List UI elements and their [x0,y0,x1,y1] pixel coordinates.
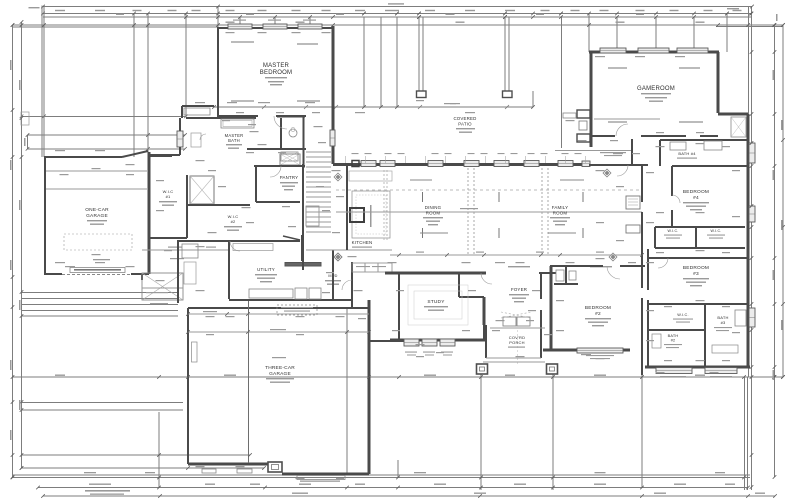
gameroom right wall [717,52,720,113]
svg-text:STUDY: STUDY [427,299,445,305]
one-car garage bottom wall left [44,273,62,275]
master bedroom bottom wall segments [217,115,258,117]
master bath left wall upper [179,118,181,131]
utility cabinet row [233,244,273,251]
stair hall right wall [302,164,304,270]
back wall windows [361,161,376,167]
gameroom bottom wall segments [591,135,615,137]
master bedroom top wall [217,27,334,29]
extension line far right [782,25,784,377]
front door swing dashes [501,312,531,318]
one-car garage interior line 1 [46,170,147,172]
gameroom window 2 [638,48,669,53]
mb window texts [233,20,246,21]
bedroom2 window [577,348,623,353]
left dim texts rotated [10,60,12,70]
svg-text:BEDROOM: BEDROOM [260,70,292,76]
powder nook walls [565,266,567,284]
closet x box [281,152,298,161]
gameroom right wing top wall [718,113,748,116]
dining dim line [336,211,642,213]
master bath top wall right segment [277,115,305,117]
porch center dashed [517,330,519,364]
garage door right jamb [141,274,143,280]
mb interior dim dashes [231,41,254,43]
wic bed3 bottom wall [648,329,705,331]
garage door label [300,481,340,482]
interior dim ticks y314 [186,312,190,316]
study window labels [405,352,417,353]
svg-text:FOYER: FOYER [511,287,527,292]
wic2 top wall [188,204,250,206]
patio column base 2 [503,91,513,98]
patio column base 1 [417,91,427,98]
svg-text:ONE-CAR: ONE-CAR [85,207,109,213]
right exterior wall [747,114,750,368]
scale note bottom left [85,490,130,492]
refrigerator [306,206,319,226]
left dim line y116 [22,115,187,117]
master bedroom window 2 [263,24,287,29]
gameroom top wall [589,51,719,54]
kitchen left wall [346,166,348,250]
diamond symbol mud [334,253,342,261]
bath4 left wall [659,140,661,166]
extension line x397 [396,17,398,107]
window centerline dashes [422,192,424,202]
gameroom left niche box [579,121,587,130]
pantry top wall [254,165,305,167]
svg-text:PATIO: PATIO [458,122,472,127]
bottom dim texts [89,484,111,485]
mud bench appliances [249,289,293,298]
master bath left window [177,131,183,147]
three-car garage bottom right [282,473,369,476]
wing front wall [645,366,750,369]
extension line garage-left double [41,6,43,158]
wing front window 1 [656,368,692,374]
interior dim ticks y255 [397,253,401,257]
driveway upper line 1 [22,402,184,404]
patio roof line col1 [418,17,420,91]
hall line [306,249,392,251]
bottom dim line outer [43,495,775,497]
note box left edge [21,112,29,125]
gameroom left pilaster 2 [577,134,590,142]
bedroom3 bottom wall [648,303,748,305]
door arc utility [230,241,240,251]
water closet cabinets [184,108,210,115]
front door double [503,317,516,326]
extension line right dim [751,6,753,490]
garage storage box [192,342,198,362]
bedroom4 left wall [671,166,673,196]
apron line 1 [22,292,179,294]
extension line left outer [12,25,14,477]
right wall window 3 [749,308,755,327]
extension line x381 [380,17,382,107]
bath3 fixtures [735,310,746,326]
extension line x186 [185,14,187,118]
master bath shower 2 [280,154,300,165]
wing front window 2 [705,368,737,374]
kitchen dashed lines [383,170,385,240]
svg-text:GARAGE: GARAGE [269,371,291,377]
kitchen back counter [349,171,392,181]
kitchen island [352,191,390,238]
door arc pantry [270,166,281,177]
wic1 right wall [186,175,188,238]
patio dim line y119 [594,118,660,120]
bottom dim line a [13,474,751,476]
dimension ticks right edge [773,23,777,27]
wic top wall bed4 [655,226,745,228]
wic1 top wall [149,155,172,157]
hall linen box 1 [626,196,640,209]
bath4 top wall [660,139,748,141]
svg-text:PORCH: PORCH [509,340,524,345]
svg-text:ROOM: ROOM [426,211,441,216]
extension garage door x347 [346,308,348,474]
wic bottom wall bed4 [655,247,745,249]
one-car garage door label box [70,268,125,273]
master closet divider 1 [280,118,282,150]
mb window right wall [330,130,335,146]
right corner text [776,14,778,21]
study windows [404,339,419,346]
svg-text:UTILITY: UTILITY [257,267,275,272]
kitchen range dark square [350,208,364,222]
right wall window 1 [749,143,755,163]
master bath tub [221,119,254,128]
svg-text:#2: #2 [231,219,236,224]
one-car garage dashed slab [64,234,132,250]
door arc bedroom4 [672,195,680,203]
slab leveler line [555,150,632,152]
extension line left inner [21,22,23,468]
kitchen island dotted [356,195,386,234]
dimension ticks top rows [41,5,45,9]
patio slab edge [214,106,533,108]
door arc bedroom3 [658,258,668,268]
back wall dim smudges [352,153,359,154]
dimension line upper full-width [13,24,784,26]
diamond hall right [603,169,611,177]
hall wall segment [283,236,300,240]
three-car garage right wall [368,300,371,474]
svg-text:#4: #4 [693,195,699,201]
dashed beam pair 1 [467,168,469,255]
svg-text:#2: #2 [671,339,676,343]
one-car garage left wall [44,157,46,274]
top dim texts [388,3,404,4]
garage door sill 1 [202,469,216,473]
svg-text:W.I.C.: W.I.C. [711,229,722,233]
master bedroom window 3 [298,24,322,29]
porch column right [547,364,558,374]
door arc bedroom2 [607,266,620,279]
garage dim line y314 [188,313,369,315]
svg-text:COVERED: COVERED [453,116,476,121]
door arc master [274,116,287,129]
extension line right outer [774,25,776,477]
pantry bottom wall [256,201,300,203]
study right wall [483,297,486,325]
one-car garage bottom wall right [131,273,149,275]
porch right wall [540,310,542,358]
slab leveler text [600,152,626,153]
one-car garage OH door sill dashed [62,274,131,276]
hall wall x632 [631,139,633,166]
pantry left wall [255,166,257,202]
porch column left [477,364,488,374]
driveway upper line 2 [22,409,184,411]
svg-text:BEDROOM: BEDROOM [683,189,709,195]
patio right vent box [563,113,576,118]
svg-text:W.I.C.: W.I.C. [668,229,679,233]
hall dimension row [390,254,642,256]
stair treads [306,151,331,153]
extension bottom x398 [397,460,399,477]
mb window dim ticks [239,17,241,24]
svg-text:BEDROOM: BEDROOM [585,305,611,311]
left dim ticks [20,115,24,119]
wic1 left wall / garage right wall [148,152,151,274]
master bedroom right wall / patio left wall [332,26,335,164]
bedroom2 bottom wall [543,349,630,352]
svg-text:KITCHEN: KITCHEN [352,240,373,245]
hall dim line y261 [170,258,184,259]
one-car garage interior line 2 [46,188,147,190]
interior dim ticks y332 garage [186,330,190,334]
main back wall [333,163,589,166]
mud right wall [351,262,353,308]
wic divider bed4 [695,227,697,248]
gameroom window 1 [600,48,626,53]
garage door sill 3 [297,476,345,480]
master closet divider 2 [302,115,304,168]
kitchen-mud wall [332,250,334,300]
svg-text:BATH #4: BATH #4 [678,151,696,156]
apron line 2 [22,298,179,300]
mid dim string texts [55,375,65,376]
master bath top wall [186,117,256,119]
study coffered ceiling [408,285,468,325]
bedroom2 top wall [550,265,603,267]
garage door sill 2 [237,469,252,473]
utility right wall upper [301,235,303,261]
extension line x561 [561,17,563,148]
door arc hall center [617,165,628,176]
porch step lines [490,327,545,329]
master bath shower [190,176,214,204]
foyer right wall [540,273,542,299]
gameroom left pilaster 1 [577,110,590,118]
gameroom left wall [590,52,593,147]
extension line x134 [133,14,135,158]
left dim line y135 [28,134,186,136]
svg-text:#1: #1 [166,194,171,199]
three-car garage bottom left [188,463,268,466]
right dim texts rotated [773,70,775,80]
one-car garage corner diagonal [122,151,148,157]
wc toilet [289,129,297,137]
three-car garage left wall [187,308,189,464]
bedroom2 window label [586,355,614,356]
master bath vanity [191,133,201,147]
water closet protrusion [182,105,214,107]
patio roof line col2 [504,17,506,91]
back wall corner block [352,161,359,167]
dimension line top second [43,13,751,15]
extension line MB left [217,7,219,27]
dashed ceiling line [336,189,640,191]
svg-text:DINING: DINING [425,205,442,210]
wic1 bottom wall [149,237,187,239]
bottom dim line b [13,477,751,479]
bedroom3 top wall [648,257,748,259]
wic bed3 right wall [704,304,706,368]
svg-text:BATH: BATH [668,334,679,338]
utility left closet [182,244,198,258]
front wall to garage [369,340,404,342]
door arc garage entry [342,280,352,290]
study front wall [390,339,486,342]
bath2 fixtures [652,334,661,348]
dimension line top outer [43,6,752,8]
garage interior wall line [248,301,250,463]
gameroom window 3 [677,48,708,53]
svg-text:BEDROOM: BEDROOM [683,265,709,271]
bath/bchd smudge [508,266,530,267]
driveway vertical three-car [158,412,160,488]
svg-text:GAMEROOM: GAMEROOM [637,86,675,92]
hall dim line y250 [142,249,229,251]
dimension string mid bottom [13,376,784,378]
utility room left wall [228,240,230,299]
extension bottom x744 double [744,377,746,490]
bottom dim line c [38,487,748,489]
left dim line y149 [28,148,186,150]
gameroom window dim ticks [616,17,618,48]
window dim ticks above back wall [344,156,346,163]
door arc gameroom [616,124,628,136]
study left wall [398,273,400,340]
master bedroom window 1 [228,24,252,29]
foyer top wall segment [539,272,556,274]
wing window labels [660,376,686,377]
bath/bchd smudge 2 [590,266,612,267]
bedroom2 left wall [550,266,553,349]
diamond hall right 2 [609,253,617,261]
gameroom interior dim dashes [608,67,627,69]
patio slab right edge [532,91,534,107]
bedroom4 top wall [672,165,748,167]
dimension line top third [43,16,751,18]
garage landing X box [142,273,183,300]
counter bar dark [285,263,321,267]
utility top wall [178,240,300,242]
study top wall [385,272,486,275]
porch extension right [552,374,554,490]
study right wall step top [458,273,460,297]
svg-text:#3: #3 [693,271,699,277]
apron line 5 [22,315,179,317]
svg-text:#3: #3 [721,320,726,325]
slab edge ticks [262,105,266,109]
bonus dashed box [277,305,317,315]
garage dim line y332 [188,331,369,333]
driveway line 1 [22,454,251,456]
kitchen island text [370,205,372,227]
hall right wall [647,249,649,290]
apron line 3 [22,304,179,306]
dimension ticks left edge [11,23,15,27]
diamond symbol kitchen top [334,173,342,181]
utility block left wall [177,240,179,303]
hall linen box 2 [626,225,640,233]
svg-text:#2: #2 [595,311,601,317]
right wall window 2 [749,206,755,222]
extension line x364 [363,17,365,107]
back wall under gameroom [589,164,648,166]
bath4 fixtures [670,142,686,150]
dimension ticks bottom rows [11,375,15,379]
master bath bottom wall [247,148,306,150]
interior dim smudges scatter [195,102,205,103]
extension line gameroom left [588,14,590,53]
butler cabinets [352,263,392,272]
apron line 4 [22,310,179,312]
svg-text:ROOM: ROOM [553,211,568,216]
wic left wall bed4 [654,227,656,248]
porch extension left [480,374,482,490]
three-car garage top wall [188,307,369,309]
one-car garage top wall [44,156,122,158]
driveway line 2 [22,467,265,469]
extension line x148 [147,14,149,153]
door arc foyer left [481,273,492,284]
diamond symbol kitchen bottom [334,253,342,261]
svg-text:W.I.C.: W.I.C. [677,313,689,317]
study right wall step bottom [483,325,485,340]
master bath left wall lower [179,147,181,155]
dashed beam pair 2 [541,168,543,255]
svg-text:PANTRY: PANTRY [280,175,299,180]
dimension line upper second [13,26,219,28]
porch left wall [485,325,487,358]
interior dim ticks y107 [212,105,216,109]
extension line x727 top [726,14,728,53]
utility bottom wall [229,299,352,301]
powder nook fixtures [556,270,564,281]
wall step to wic1 [148,154,180,156]
garage step box [268,462,282,472]
bedroom4 wing left wall [641,166,643,202]
svg-text:FAMILY: FAMILY [552,205,569,210]
extension bottom x642 [641,375,643,488]
one-car garage dim text [93,259,110,260]
svg-text:GARAGE: GARAGE [86,213,108,219]
master bedroom left wall [217,27,219,117]
left dim vertical connector [27,135,29,149]
garage dim text y359 [272,357,286,358]
svg-text:MASTER: MASTER [263,63,290,69]
svg-text:THREE-CAR: THREE-CAR [265,365,295,371]
svg-text:BATH: BATH [228,138,240,143]
dining interior dashes [420,232,448,234]
